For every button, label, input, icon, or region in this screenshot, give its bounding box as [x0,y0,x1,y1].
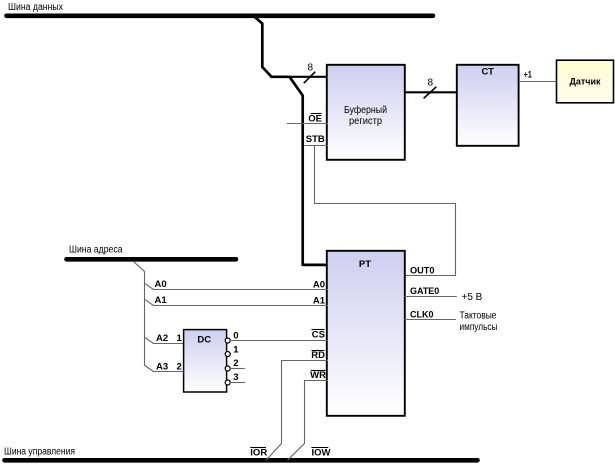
svg-text:CLK0: CLK0 [410,309,434,320]
bus width slash (8) at CT input [424,87,437,99]
svg-text:CS: CS [312,330,325,341]
svg-text:2: 2 [233,358,238,369]
svg-text:+5 В: +5 В [462,292,483,303]
wire: register output to counter CT (thick) [404,91,457,93]
wire: DC output 0 to CS [230,340,327,342]
wire: RD to control bus (IOR) [266,361,328,461]
counter CT [457,65,519,146]
label IOR (active low) [250,448,267,459]
DC output 2 circle [225,366,230,371]
buffer register U1 [327,65,405,160]
svg-text:A2: A2 [156,333,168,344]
DC output 0 circle [225,338,230,343]
svg-text:3: 3 [233,372,238,383]
svg-text:A0: A0 [155,279,167,290]
wire GATE0 [405,296,457,298]
DC output 3 stub wire [230,382,245,384]
DC output 2 stub wire [230,368,245,370]
wire: WR to control bus (IOW) [288,381,328,461]
svg-text:RD: RD [311,350,325,361]
svg-text:OE: OE [308,113,322,124]
svg-text:Шина адреса: Шина адреса [69,244,123,255]
svg-text:IOW: IOW [312,448,331,459]
svg-text:Тактовые: Тактовые [460,310,497,321]
svg-text:1: 1 [233,344,239,355]
DC output 3 circle [225,380,230,385]
svg-text:STB: STB [306,134,325,145]
data bus [7,14,434,19]
wire A3 [154,371,185,373]
svg-text:регистр: регистр [349,116,382,127]
control bus [5,458,478,463]
svg-text:1: 1 [177,333,183,344]
svg-text:Шина управления: Шина управления [4,446,75,457]
svg-text:СТ: СТ [481,66,494,77]
svg-text:Шина данных: Шина данных [8,2,63,13]
address bus [67,257,237,262]
DC output 1 circle [225,352,230,357]
pin label CS (active low) [312,330,326,341]
svg-text:A0: A0 [313,279,325,290]
programmable timer PT [327,251,405,416]
bus width slash (8) at register input [304,72,315,84]
decoder DC [184,330,227,392]
pin STB of buffer register [304,134,327,146]
svg-text:импульсы: импульсы [460,322,498,333]
wire A1 [145,299,328,305]
svg-text:OUT0: OUT0 [410,265,435,276]
svg-text:IOR: IOR [250,448,267,459]
label Тактовые импульсы [460,310,498,333]
svg-text:A3: A3 [156,362,168,373]
svg-text:8: 8 [428,78,434,89]
svg-text:A1: A1 [155,295,168,306]
wire A0 [145,283,328,289]
svg-text:WR: WR [310,370,326,381]
svg-text:8: 8 [308,63,314,74]
wire: address bus trunk to A0..A3 [133,261,153,371]
svg-text:A1: A1 [313,296,326,307]
wire A2 [145,337,185,343]
wire: OUT0 to STB (feedback) [315,146,456,276]
pin OE (active low) of buffer register [287,113,328,124]
label IOW (active low) [312,448,331,459]
pin label RD (active low) [311,350,325,361]
pin label WR (active low) [310,370,326,381]
svg-text:2: 2 [177,362,182,373]
wire: CT +1 output to sensor [519,81,557,83]
svg-text:GATE0: GATE0 [410,286,439,297]
wire CLK0 [405,319,456,321]
svg-text:PT: PT [359,259,371,270]
svg-text:Датчик: Датчик [570,76,601,87]
wire: data input into buffer register [290,76,327,78]
svg-text:+1: +1 [524,69,533,80]
sensor block "Датчик" [557,60,614,103]
svg-text:DC: DC [197,334,211,345]
wire: thick data wire from data bus down to PT [255,17,327,265]
svg-text:Буферный: Буферный [344,104,387,116]
